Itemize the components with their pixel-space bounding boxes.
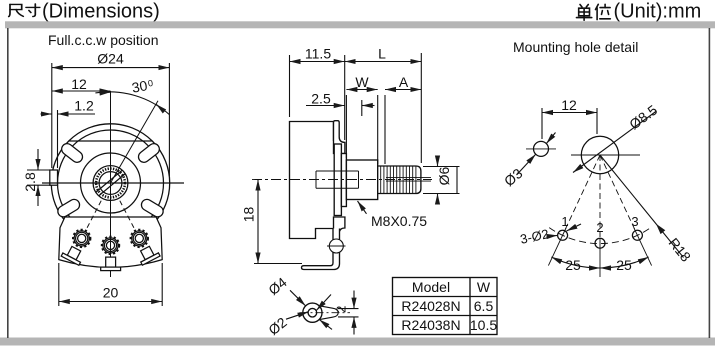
dashed radial to right terminal xyxy=(120,201,136,231)
svg-text:2: 2 xyxy=(334,306,349,313)
30 degree line xyxy=(111,101,159,183)
dashed radial to hole 3 xyxy=(600,155,635,230)
title glyph 单 xyxy=(577,5,592,21)
svg-text:Full.c.c.w position: Full.c.c.w position xyxy=(48,32,158,48)
middle leg xyxy=(101,257,121,271)
left leg xyxy=(61,244,85,265)
svg-text:30: 30 xyxy=(130,77,148,95)
side view dimensions xyxy=(241,45,460,263)
front view dimensions xyxy=(22,51,169,307)
rim notch top-left xyxy=(59,141,84,164)
svg-text:1.2: 1.2 xyxy=(74,98,94,114)
dim 2 extension lines xyxy=(338,308,359,310)
left frame line xyxy=(7,28,9,338)
svg-text:2.5: 2.5 xyxy=(311,90,331,106)
solid radial tail 3 xyxy=(634,228,652,266)
dim arc 25 25 xyxy=(551,257,600,268)
rim notch bottom-right xyxy=(139,197,165,219)
terminal hole 3 xyxy=(632,230,642,240)
dim 2.5 extension line xyxy=(361,100,363,116)
solid radial tail 1 xyxy=(548,228,566,266)
dim L extension line xyxy=(420,53,422,163)
shaft knurl stripes xyxy=(381,167,416,194)
body inner rim circle xyxy=(58,130,164,236)
table row lines xyxy=(393,296,498,298)
svg-text:L: L xyxy=(378,45,386,61)
svg-text:20: 20 xyxy=(103,285,119,301)
dim Ø24 line xyxy=(52,67,170,69)
svg-text:(Dimensions): (Dimensions) xyxy=(42,1,160,23)
svg-text:12: 12 xyxy=(71,76,87,92)
dim 12 line xyxy=(52,90,111,92)
dim Ø6 arrows xyxy=(437,157,439,167)
hole 1 tick xyxy=(567,224,582,231)
eyelet inner circle xyxy=(308,308,317,317)
dim 30 arc arrow left xyxy=(100,91,111,94)
svg-text:Model: Model xyxy=(412,279,450,295)
terminal block xyxy=(59,217,162,267)
dim 11.5 line xyxy=(290,61,345,63)
leg rivet xyxy=(329,239,343,253)
eyelet tail xyxy=(318,306,338,320)
leg rivet centerline tick xyxy=(327,245,346,247)
svg-text:10.5: 10.5 xyxy=(470,317,497,333)
bushing hole circle Ø8.5 xyxy=(581,136,618,173)
right frame line xyxy=(709,28,711,338)
dim 2 arrows xyxy=(353,291,355,309)
svg-text:Mounting hole detail: Mounting hole detail xyxy=(513,39,638,55)
title glyph 尺 xyxy=(9,4,24,16)
horizontal centerline xyxy=(42,182,184,184)
svg-text:25: 25 xyxy=(565,257,581,273)
dim 1.2 tails xyxy=(41,113,52,115)
dashed radial to left terminal xyxy=(86,201,102,231)
svg-text:18: 18 xyxy=(241,207,257,223)
dashed arc through holes xyxy=(549,228,651,244)
title glyph 位 xyxy=(596,4,611,19)
dim A extension line xyxy=(384,95,386,164)
mounting leg with foot xyxy=(302,229,340,270)
terminal washer middle xyxy=(102,237,119,254)
dim 12 line xyxy=(542,112,597,114)
svg-text:R24028N: R24028N xyxy=(401,298,460,314)
dim 2.5 tails xyxy=(306,105,345,107)
dim 30 arc arrow right xyxy=(156,104,164,111)
right leg xyxy=(136,244,160,265)
label M8X0.75 leader xyxy=(358,201,367,214)
bottom gray bar xyxy=(0,338,715,346)
pilot hole circle Ø3 xyxy=(534,141,549,156)
shaft bore hidden lines xyxy=(316,171,359,188)
eyelet outer circle xyxy=(303,303,322,322)
dim 12 extension lines xyxy=(541,108,543,139)
rim notch top-right xyxy=(136,141,161,164)
svg-text:12: 12 xyxy=(561,97,577,113)
dim 2.8 extension lines xyxy=(27,169,51,171)
terminal washer left xyxy=(73,230,90,247)
bushing xyxy=(346,160,377,200)
title glyph 寸 xyxy=(26,4,40,16)
rim notch bottom-left xyxy=(56,197,82,219)
top chord line xyxy=(69,140,152,142)
svg-text:(Unit):mm: (Unit):mm xyxy=(614,1,702,23)
table frame xyxy=(393,278,498,335)
dim Ø24 extension lines xyxy=(51,63,53,168)
svg-text:W: W xyxy=(355,74,369,90)
dim L line xyxy=(345,61,422,63)
dim A line xyxy=(385,89,421,91)
body outer circle xyxy=(51,124,169,242)
eyelet centerline xyxy=(300,312,351,314)
dim W line xyxy=(346,89,377,91)
svg-text:1: 1 xyxy=(561,214,568,229)
dim R18 arrowhead xyxy=(656,224,665,234)
shaft inner circle xyxy=(99,172,122,195)
svg-text:11.5: 11.5 xyxy=(305,45,331,61)
top gray bar xyxy=(5,21,715,28)
svg-text:6.5: 6.5 xyxy=(474,298,494,314)
vertical centerline xyxy=(110,91,112,277)
dim Ø6 connector xyxy=(456,167,458,194)
dim 20 line xyxy=(59,301,162,303)
dim R18 leader xyxy=(600,155,684,258)
svg-text:Ø6: Ø6 xyxy=(436,166,452,185)
svg-text:3: 3 xyxy=(631,214,638,229)
dim Ø3 arrows xyxy=(546,133,555,144)
svg-text:2.8: 2.8 xyxy=(22,172,38,192)
shaft knurl ring xyxy=(96,169,125,198)
dim Ø4 arrows xyxy=(290,290,306,306)
svg-text:W: W xyxy=(477,279,491,295)
svg-text:Ø24: Ø24 xyxy=(97,51,124,67)
body outline xyxy=(290,122,334,239)
shaft body xyxy=(378,166,421,194)
svg-text:A: A xyxy=(399,74,409,90)
cover plate xyxy=(334,144,341,216)
dashed radial to hole 2 xyxy=(599,155,601,238)
solid radial tail 2 xyxy=(599,238,601,277)
dim W extension lines xyxy=(345,95,347,158)
svg-text:R24038N: R24038N xyxy=(401,317,460,333)
terminal hole 2 xyxy=(595,238,605,248)
centerline xyxy=(252,179,432,181)
dim 2.8 arrows xyxy=(37,149,39,170)
label 3-Ø2 leader xyxy=(552,234,558,237)
anti-rotation tab xyxy=(50,170,58,185)
dim 30 arc xyxy=(95,92,169,115)
dim 11.5 extension lines xyxy=(289,55,291,117)
dim 20 extension lines xyxy=(58,263,60,306)
terminal washer right xyxy=(131,230,148,247)
svg-text:M8X0.75: M8X0.75 xyxy=(371,213,427,229)
cover ear top xyxy=(334,121,345,154)
table column line xyxy=(469,278,471,335)
dim 1.2 extension line right xyxy=(57,110,59,168)
terminal hole 1 xyxy=(558,230,568,240)
dim Ø6 extension lines xyxy=(423,166,460,168)
hub circle xyxy=(81,153,141,213)
dashed radial to hole 1 xyxy=(565,155,600,230)
horizontal centerline small xyxy=(526,148,556,150)
shaft flat slot lines xyxy=(386,177,431,181)
washer xyxy=(341,154,346,207)
horizontal centerline big xyxy=(571,154,640,156)
dim Ø2 arrows xyxy=(286,312,309,320)
dim 18 extension line bottom xyxy=(254,263,302,265)
svg-text:25: 25 xyxy=(616,257,632,273)
dim Ø8.5 leader xyxy=(573,111,657,173)
cover ear bottom xyxy=(334,217,345,239)
svg-text:2: 2 xyxy=(596,220,603,235)
dim 18 line xyxy=(257,180,259,264)
shaft outer circle xyxy=(93,166,128,201)
shaft slot bar xyxy=(96,170,125,195)
